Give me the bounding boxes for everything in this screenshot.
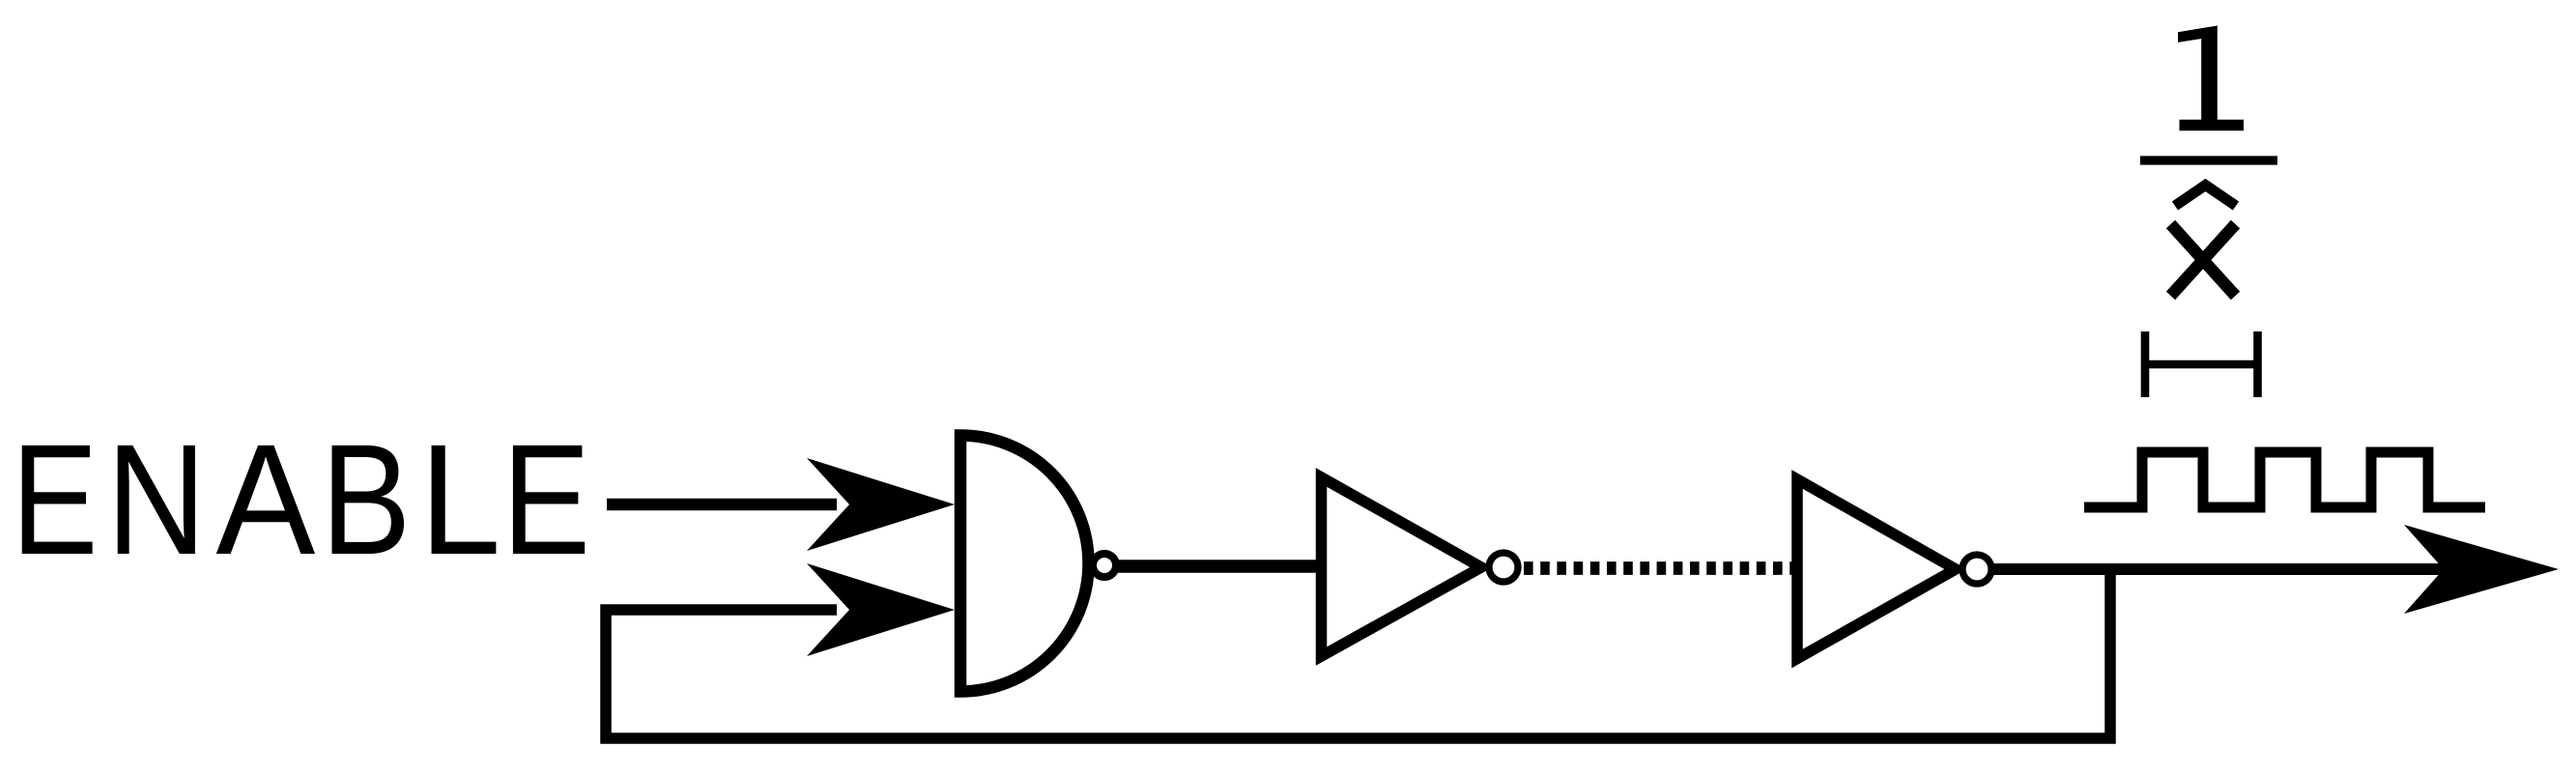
inverter U2 (1322, 477, 1482, 656)
inverter U3 output bubble (1962, 555, 1991, 584)
wire W4: dotted wire (omitted inverter stages) (1524, 561, 1799, 575)
fraction bar (2140, 156, 2277, 164)
output arrowhead (2404, 525, 2559, 614)
node ENABLE label (12, 411, 590, 588)
svg-text:E: E (12, 412, 99, 588)
svg-text:E: E (502, 412, 590, 588)
wire W5: U3 output to circuit output (1993, 563, 2447, 575)
arrowhead input B (807, 563, 955, 656)
svg-text:A: A (215, 411, 315, 588)
wire W3: NAND output to inverter U2 (1118, 560, 1318, 573)
nand U1 output bubble (1093, 554, 1116, 577)
svg-text:N: N (106, 411, 207, 588)
wire W2: feedback to NAND input B (606, 605, 837, 616)
inverter U3 (1797, 479, 1956, 659)
wire W1: ENABLE to NAND input A (607, 499, 837, 511)
inverter U2 output bubble (1489, 553, 1518, 582)
label x-hat (denominator): hat (2175, 186, 2236, 207)
svg-text:B: B (321, 412, 411, 588)
label 1 (frequency numerator) (2178, 26, 2244, 131)
svg-text:L: L (419, 413, 501, 588)
period measurement bracket (2145, 331, 2258, 397)
arrowhead input A (807, 458, 955, 551)
clock output waveform symbol (2084, 452, 2485, 507)
wire W6: feedback loop (junction, down, left, up to input B) (606, 563, 2110, 738)
label x-hat (denominator): x body (2171, 224, 2236, 296)
nand gate U1 (960, 436, 1089, 692)
